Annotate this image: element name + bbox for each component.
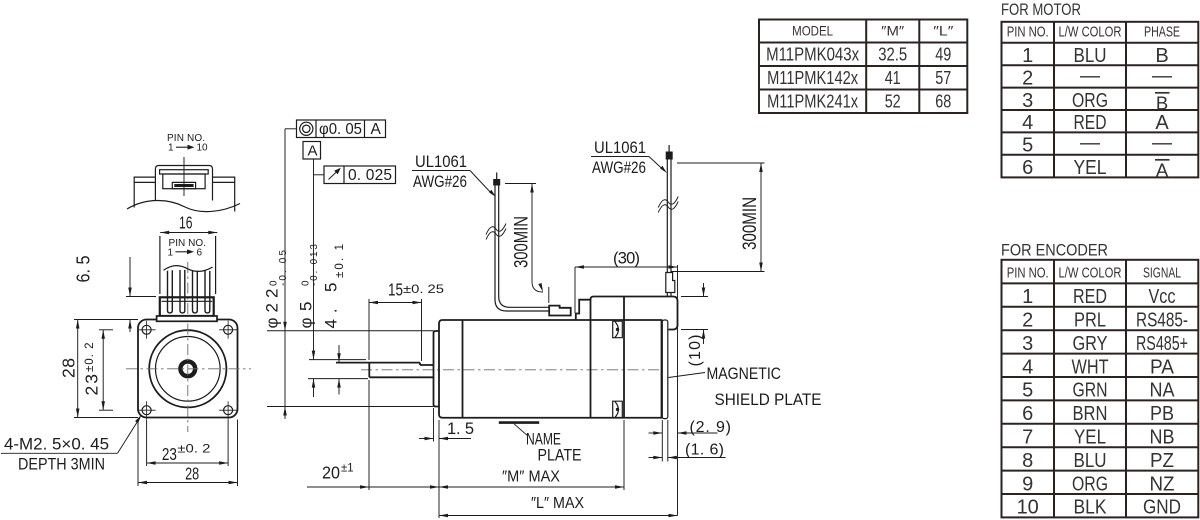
svg-text:10: 10 bbox=[1017, 497, 1039, 519]
svg-text:L/W COLOR: L/W COLOR bbox=[1059, 25, 1122, 41]
svg-text:″M″: ″M″ bbox=[881, 23, 904, 39]
svg-text:16: 16 bbox=[179, 213, 193, 233]
svg-text:2: 2 bbox=[1022, 310, 1033, 332]
svg-text:±0. 2: ±0. 2 bbox=[84, 343, 96, 373]
svg-text:M11PMK043x: M11PMK043x bbox=[766, 45, 859, 65]
svg-text:5: 5 bbox=[1022, 135, 1033, 157]
svg-text:PIN NO.: PIN NO. bbox=[1007, 25, 1049, 41]
svg-text:BLU: BLU bbox=[1074, 450, 1107, 472]
svg-text:10: 10 bbox=[197, 143, 209, 154]
svg-text:3: 3 bbox=[1022, 90, 1033, 112]
svg-text:GND: GND bbox=[1143, 497, 1181, 519]
svg-text:49: 49 bbox=[935, 45, 951, 65]
svg-text:MODEL: MODEL bbox=[792, 23, 833, 39]
svg-text:6. 5: 6. 5 bbox=[74, 256, 94, 283]
svg-text:±1: ±1 bbox=[341, 463, 354, 475]
svg-text:300MIN: 300MIN bbox=[740, 197, 761, 250]
svg-text:PA: PA bbox=[1150, 356, 1175, 378]
svg-text:A: A bbox=[1155, 112, 1169, 134]
svg-text:PLATE: PLATE bbox=[538, 447, 582, 465]
svg-text:4: 4 bbox=[1022, 356, 1033, 378]
svg-text:φ0. 05: φ0. 05 bbox=[319, 121, 362, 138]
svg-text:AWG#26: AWG#26 bbox=[592, 159, 646, 177]
svg-text:52: 52 bbox=[885, 92, 901, 112]
svg-text:PRL: PRL bbox=[1074, 310, 1106, 332]
svg-text:1: 1 bbox=[1022, 286, 1033, 308]
svg-text:SIGNAL: SIGNAL bbox=[1143, 266, 1181, 282]
svg-text:FOR MOTOR: FOR MOTOR bbox=[1001, 0, 1081, 19]
svg-text:6: 6 bbox=[1022, 403, 1033, 425]
svg-text:28: 28 bbox=[59, 358, 79, 378]
svg-text:±0. 25: ±0. 25 bbox=[403, 284, 444, 296]
svg-text:A: A bbox=[308, 143, 318, 160]
svg-text:4: 4 bbox=[1022, 112, 1033, 134]
svg-text:GRY: GRY bbox=[1073, 333, 1108, 355]
svg-text:-0. 013: -0. 013 bbox=[309, 244, 320, 286]
svg-text:GRN: GRN bbox=[1073, 380, 1108, 402]
svg-text:3: 3 bbox=[1022, 333, 1033, 355]
svg-text:—: — bbox=[1152, 65, 1172, 87]
svg-text:BRN: BRN bbox=[1073, 403, 1108, 425]
svg-text:WHT: WHT bbox=[1072, 356, 1109, 378]
svg-text:RS485+: RS485+ bbox=[1136, 333, 1188, 355]
svg-text:φ22: φ22 bbox=[263, 289, 282, 329]
svg-text:AWG#26: AWG#26 bbox=[413, 173, 467, 191]
svg-text:″L″: ″L″ bbox=[933, 23, 953, 39]
svg-text:—: — bbox=[1080, 132, 1100, 154]
svg-text:φ5: φ5 bbox=[296, 302, 315, 329]
svg-text:M11PMK142x: M11PMK142x bbox=[767, 68, 858, 88]
svg-text:UL1061: UL1061 bbox=[415, 153, 467, 171]
svg-text:PZ: PZ bbox=[1150, 450, 1174, 472]
svg-text:±0. 2: ±0. 2 bbox=[177, 444, 210, 456]
svg-text:B: B bbox=[1155, 45, 1168, 67]
svg-text:15: 15 bbox=[388, 280, 403, 300]
svg-text:6: 6 bbox=[1022, 157, 1033, 179]
svg-text:23: 23 bbox=[162, 444, 177, 464]
svg-text:L/W COLOR: L/W COLOR bbox=[1059, 266, 1122, 282]
svg-text:1. 5: 1. 5 bbox=[447, 420, 474, 438]
svg-text:NB: NB bbox=[1150, 427, 1175, 449]
svg-text:5: 5 bbox=[1022, 380, 1033, 402]
svg-text:DEPTH 3MIN: DEPTH 3MIN bbox=[18, 455, 105, 474]
svg-text:PB: PB bbox=[1150, 403, 1174, 425]
svg-text:0. 025: 0. 025 bbox=[348, 167, 392, 184]
svg-text:1: 1 bbox=[1022, 45, 1033, 67]
svg-text:2: 2 bbox=[1022, 67, 1033, 89]
svg-text:PHASE: PHASE bbox=[1144, 25, 1180, 41]
svg-text:B: B bbox=[1156, 92, 1168, 113]
svg-text:″M″ MAX: ″M″ MAX bbox=[502, 469, 560, 486]
svg-text:300MIN: 300MIN bbox=[512, 216, 533, 268]
svg-text:ORG: ORG bbox=[1072, 90, 1108, 112]
svg-text:BLU: BLU bbox=[1074, 45, 1107, 67]
svg-text:RED: RED bbox=[1073, 286, 1107, 308]
svg-text:(1. 6): (1. 6) bbox=[685, 442, 724, 459]
svg-text:32.5: 32.5 bbox=[878, 45, 907, 65]
svg-text:4. 5: 4. 5 bbox=[322, 283, 341, 329]
svg-text:57: 57 bbox=[935, 68, 951, 88]
svg-text:YEL: YEL bbox=[1074, 157, 1107, 179]
svg-text:9: 9 bbox=[1022, 473, 1033, 495]
svg-text:41: 41 bbox=[885, 68, 901, 88]
svg-text:RS485-: RS485- bbox=[1136, 310, 1188, 332]
svg-text:MAGNETIC: MAGNETIC bbox=[707, 365, 782, 383]
svg-text:BLK: BLK bbox=[1074, 497, 1108, 519]
svg-text:″L″ MAX: ″L″ MAX bbox=[531, 495, 584, 512]
svg-text:—: — bbox=[1152, 132, 1172, 154]
svg-text:A: A bbox=[1156, 159, 1169, 180]
svg-text:A: A bbox=[371, 121, 382, 138]
svg-text:M11PMK241x: M11PMK241x bbox=[767, 92, 858, 112]
svg-text:UL1061: UL1061 bbox=[594, 139, 646, 157]
svg-text:PIN NO.: PIN NO. bbox=[1007, 266, 1049, 282]
svg-text:68: 68 bbox=[935, 92, 951, 112]
svg-text:7: 7 bbox=[1022, 427, 1033, 449]
svg-text:FOR ENCODER: FOR ENCODER bbox=[1001, 241, 1108, 260]
svg-text:1: 1 bbox=[168, 247, 174, 258]
svg-text:6: 6 bbox=[197, 247, 203, 258]
svg-text:-0. 05: -0. 05 bbox=[278, 250, 289, 286]
svg-text:—: — bbox=[1080, 65, 1100, 87]
svg-text:23: 23 bbox=[82, 374, 102, 396]
svg-text:(30): (30) bbox=[613, 250, 640, 268]
svg-text:ORG: ORG bbox=[1072, 473, 1108, 495]
svg-text:28: 28 bbox=[185, 463, 199, 483]
svg-text:RED: RED bbox=[1074, 112, 1107, 134]
svg-text:YEL: YEL bbox=[1074, 427, 1106, 449]
svg-text:NA: NA bbox=[1150, 380, 1176, 402]
svg-text:8: 8 bbox=[1022, 450, 1033, 472]
svg-text:1: 1 bbox=[168, 143, 174, 154]
svg-text:(10): (10) bbox=[687, 335, 704, 367]
svg-text:SHIELD PLATE: SHIELD PLATE bbox=[715, 391, 822, 409]
svg-text:20: 20 bbox=[322, 463, 340, 483]
svg-text:±0. 1: ±0. 1 bbox=[334, 244, 346, 278]
svg-text:NZ: NZ bbox=[1150, 473, 1175, 495]
svg-text:Vcc: Vcc bbox=[1149, 286, 1176, 308]
svg-text:4-M2. 5×0. 45: 4-M2. 5×0. 45 bbox=[4, 435, 109, 454]
